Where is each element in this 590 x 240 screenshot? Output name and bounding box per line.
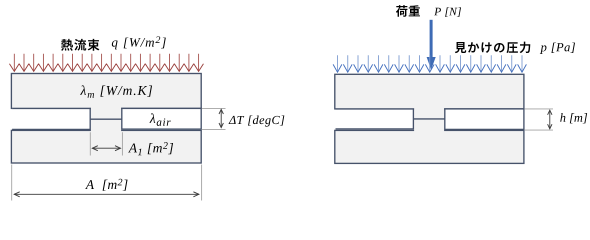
deltaT extension lines bbox=[202, 108, 226, 129]
A1 dimension arrow bbox=[92, 146, 120, 151]
heat flux math label q [W/m2] bbox=[112, 36, 166, 49]
bottom plate (left diagram) bbox=[11, 130, 201, 163]
top plate (left diagram) bbox=[11, 74, 201, 109]
air gap box left (right diagram) bbox=[336, 108, 414, 129]
heat flux distributed arrows (red) bbox=[9, 54, 203, 72]
load math label P [N] bbox=[434, 7, 461, 17]
heat flux label (netsu-ryusoku) bbox=[61, 39, 99, 51]
top plate (right diagram) bbox=[335, 74, 524, 109]
lambda_m label bbox=[80, 85, 152, 97]
contact bridge line (right) bbox=[413, 118, 444, 120]
bottom plate (right diagram) bbox=[335, 130, 524, 163]
air gap box left (left diagram) bbox=[12, 108, 89, 129]
A dimension extension lines bbox=[12, 165, 202, 201]
contact pillar fill (right) bbox=[414, 107, 444, 132]
pressure math label p [Pa] bbox=[540, 43, 575, 54]
lambda_air label bbox=[149, 113, 170, 125]
pressure distributed arrows (blue) bbox=[333, 55, 526, 72]
h label bbox=[560, 113, 587, 123]
load arrow (big blue) bbox=[427, 20, 436, 70]
A1 dimension extension lines bbox=[90, 132, 122, 155]
h dimension arrow bbox=[548, 110, 552, 129]
A1 area label bbox=[128, 142, 173, 155]
A dimension arrow bbox=[14, 192, 199, 197]
contact pillar fill (left) bbox=[91, 107, 121, 132]
deltaT dimension arrow bbox=[219, 109, 223, 127]
h extension lines bbox=[525, 109, 553, 130]
contact bridge line (left) bbox=[90, 118, 122, 120]
deltaT label bbox=[229, 115, 285, 126]
air gap box right (right diagram) bbox=[445, 109, 524, 129]
air gap box right with lambda_air (left diagram) bbox=[122, 108, 201, 129]
load label (kajuu) bbox=[396, 5, 420, 17]
A area label bbox=[85, 179, 127, 191]
apparent pressure label (mikake no atsuryoku) bbox=[455, 42, 530, 53]
